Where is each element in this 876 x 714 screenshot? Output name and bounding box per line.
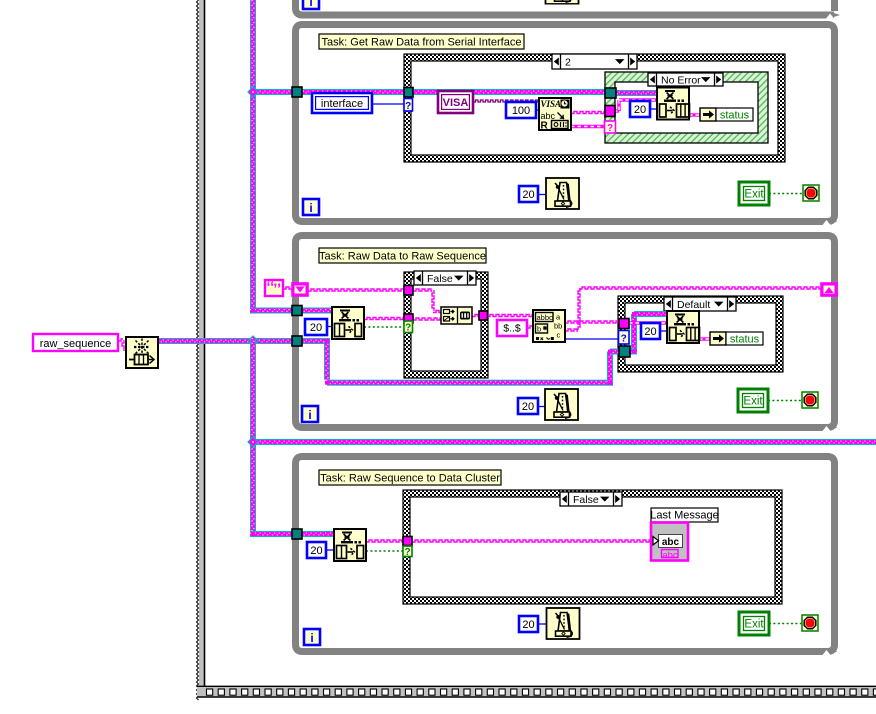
- svg-text:20: 20: [522, 401, 534, 413]
- svg-text:interface: interface: [321, 98, 363, 110]
- wire Exit to loop stop terminal (frame2): [768, 400, 802, 402]
- selector terminal CS4 ?: [403, 546, 412, 558]
- tunnel CS3 left (string): [619, 319, 629, 329]
- wire inside No Error tunnel to enqueue E1: [614, 100, 659, 111]
- svg-text:20: 20: [522, 619, 534, 631]
- indicator status (No Error): [700, 108, 753, 122]
- VISA configure serial port icon: [539, 98, 571, 132]
- while loop frame 1 (Task: Get Raw Data from Serial Interface): [296, 25, 838, 226]
- while loop frame 2 (Task: Raw Data to Raw Sequence): [296, 236, 838, 432]
- wire 20 to wait-ms metronome (frame3): [538, 623, 547, 625]
- tunnel frame3 left (queue): [292, 529, 302, 539]
- queue wire junction at (253,92): [248, 87, 258, 97]
- wire enqueue E3 to status indicator: [699, 337, 710, 340]
- wire queue inside frame2 to dequeue D2: [301, 308, 334, 314]
- enqueue element icon E1: [657, 88, 690, 120]
- match pattern icon: [533, 310, 565, 342]
- svg-text:abc: abc: [662, 550, 678, 561]
- control Exit (frame3): [739, 612, 769, 635]
- dequeue element icon D3: [334, 529, 366, 561]
- case structure CS4 (False) border: [403, 490, 782, 604]
- constant 20 (frame3 wait): [519, 616, 538, 632]
- wire match pattern out a to CS3 tunnel: [565, 321, 619, 323]
- constant VISA: [438, 91, 473, 113]
- wire Exit to loop stop terminal (frame3): [769, 623, 802, 625]
- case structure CS3 selector label: [664, 297, 736, 311]
- selector terminal CS1 ?: [404, 99, 413, 112]
- svg-text:20: 20: [310, 322, 322, 334]
- flat sequence structure left border: [197, 0, 205, 700]
- wire raw_sequence to obtain queue icon: [118, 339, 126, 350]
- wire VISA icon string out to tunnel: [571, 112, 605, 114]
- queue wire junction at (253,442): [248, 437, 258, 447]
- wire dequeue D2 bool out to CS2 ? terminal: [364, 326, 404, 328]
- tunnel frame2 right up-arrow: [821, 283, 837, 296]
- constant 20 (frame2 wait): [518, 398, 538, 414]
- svg-text:20: 20: [644, 326, 656, 338]
- svg-text:b: b: [537, 325, 541, 334]
- tunnel CS1 left (queue): [404, 88, 413, 98]
- label Task: Raw Sequence to Data Cluster: [319, 470, 501, 485]
- svg-text:No Error: No Error: [661, 74, 701, 86]
- svg-text:i: i: [309, 201, 312, 215]
- svg-text:status: status: [720, 110, 750, 122]
- constant raw_sequence: [33, 334, 118, 351]
- case structure CS4 selector label: [560, 492, 622, 506]
- svg-text:abbc: abbc: [537, 313, 554, 322]
- wire queue H2 (obtain queue to frame 2): [158, 338, 300, 344]
- wait ms metronome icon (frame2): [545, 389, 578, 420]
- wire queue frame2 bypass: [301, 338, 620, 386]
- wire CS2 right tunnel to match pattern: [487, 315, 533, 317]
- queue wire corner patches: [251, 309, 636, 537]
- tunnel No Error left (queue): [605, 88, 616, 98]
- label Task: Get Raw Data from Serial Interface: [319, 34, 524, 49]
- constant 20 (No Error enqueue): [630, 101, 650, 117]
- svg-text:i: i: [310, 631, 313, 645]
- wire 100 to VISA configure icon: [536, 109, 539, 111]
- wire enqueue E1 to status indicator: [689, 113, 700, 116]
- tunnel frame1 left (queue): [292, 87, 302, 97]
- iteration terminal i (frame2): [302, 406, 318, 422]
- wire CS2 tunnel2 to convert icon row2: [413, 318, 441, 320]
- case structure No Error selector label: [648, 73, 723, 86]
- svg-text:bb: bb: [554, 322, 562, 331]
- wire queue inside CS3 to enqueue E3: [629, 311, 668, 355]
- svg-text:?: ?: [621, 334, 627, 345]
- wire VISA icon error out to ? terminal: [571, 125, 604, 128]
- constant 20 (frame1 wait): [519, 186, 538, 202]
- svg-text:20: 20: [522, 189, 534, 201]
- tunnel CS3 left (queue): [619, 346, 630, 357]
- wait ms metronome icon (frame3): [547, 608, 580, 639]
- control interface (string): [312, 93, 372, 113]
- svg-text:abc: abc: [662, 537, 680, 548]
- case structure CS3 (Default) border: [618, 296, 783, 372]
- queue wire junction at (253,341): [248, 336, 258, 346]
- svg-text:Last Message: Last Message: [650, 510, 718, 522]
- wire inside CS3 tunnel to enqueue E3: [629, 321, 668, 324]
- case structure No Error (green) border: [605, 72, 768, 143]
- wire inside CS2 riser to convert icon: [413, 289, 441, 313]
- tunnel CS4 left (string): [403, 537, 412, 546]
- wire queue H0 (into frame 1): [250, 89, 415, 95]
- wire queue V2 (x=253, down to frame 3): [250, 338, 256, 534]
- svg-text:c: c: [557, 331, 561, 340]
- svg-text:Task: Raw Sequence to Data Clu: Task: Raw Sequence to Data Cluster: [320, 473, 500, 485]
- wire queue frame3 to dequeue D3: [301, 531, 335, 537]
- wire 20 to enqueue E1: [650, 108, 659, 110]
- svg-text:abc: abc: [541, 111, 556, 121]
- flat sequence structure bottom border (filmstrip): [197, 686, 876, 697]
- svg-text:i: i: [308, 408, 311, 422]
- enqueue element icon E3: [667, 311, 700, 343]
- svg-text:20: 20: [634, 104, 646, 116]
- svg-text:Default: Default: [677, 299, 710, 311]
- wire match pattern out bb riser to top: [565, 287, 821, 331]
- wire interface to CS1 selector terminal: [372, 103, 404, 105]
- iteration terminal i (frame3): [304, 629, 320, 645]
- selector terminal CS2 ?: [404, 321, 413, 334]
- label Task: Raw Data to Raw Sequence: [319, 248, 486, 263]
- svg-text:Exit: Exit: [743, 396, 763, 408]
- wire 20 to wait-ms metronome (frame1): [538, 194, 546, 196]
- case structure CS2 (False) border: [404, 272, 488, 378]
- selector terminal No Error ?: [605, 121, 616, 134]
- svg-text:False: False: [573, 494, 599, 506]
- tunnel frame2 left queue 2: [292, 336, 302, 346]
- svg-text:?: ?: [405, 323, 411, 334]
- svg-text:$..$: $..$: [503, 323, 521, 335]
- while loop frame 3 (Task: Raw Sequence to Data Cluster): [296, 457, 838, 656]
- wire dequeue D3 bool to CS4 ? terminal: [366, 550, 403, 552]
- wire quotes constant to down tunnel: [283, 287, 292, 289]
- string-to-byte-array convert icon: [441, 307, 472, 324]
- svg-text:VISA: VISA: [443, 97, 469, 109]
- control Exit (frame2): [738, 389, 768, 412]
- svg-text:status: status: [730, 334, 760, 346]
- case structure CS1 selector label: [552, 54, 637, 69]
- svg-text:?: ?: [405, 101, 411, 112]
- svg-text:raw_sequence: raw_sequence: [40, 338, 112, 350]
- svg-text:100: 100: [512, 105, 530, 117]
- dequeue element icon D2: [332, 307, 364, 339]
- wire queue inside No Error to enqueue: [614, 90, 659, 96]
- wire dequeue D2 out to CS2 tunnel2: [364, 318, 404, 320]
- svg-text:20: 20: [310, 545, 322, 557]
- obtain queue icon: [126, 337, 158, 368]
- wire down tunnel to CS2 tunnel: [308, 289, 404, 291]
- wire Exit to loop stop terminal (frame1): [769, 193, 803, 195]
- wire dequeue D3 out to CS4 tunnel: [366, 540, 403, 542]
- svg-text:VISA: VISA: [541, 99, 562, 109]
- iteration terminal i (frame1): [303, 199, 319, 215]
- svg-text:?: ?: [404, 547, 410, 558]
- svg-text:Exit: Exit: [744, 619, 764, 631]
- wire 20 to enqueue E3: [660, 330, 668, 332]
- constant 20 (CS3 enqueue): [641, 323, 660, 339]
- indicator status (CS3): [710, 332, 763, 346]
- wire match pattern offset to CS3 ? terminal: [565, 338, 618, 340]
- case structure CS1 (selector 2) border: [404, 54, 785, 162]
- control Exit (frame1): [739, 182, 769, 205]
- wire queue H0b (CS1 tunnel to No Error): [413, 89, 610, 95]
- svg-text:2: 2: [565, 56, 571, 68]
- tunnel No Error left (string): [605, 106, 615, 117]
- selector terminal CS3 ?: [619, 331, 630, 345]
- wire queue H4 (between frames, to right edge): [250, 439, 876, 445]
- wire inside CS4 to Last Message indicator: [412, 540, 651, 542]
- constant empty strings quotes: [265, 280, 283, 296]
- wire $..$ to match pattern: [527, 326, 533, 328]
- wire 20 to dequeue D2: [327, 326, 332, 328]
- tunnel frame2 left down-arrow: [292, 283, 308, 296]
- wire convert icon to CS2 right tunnel: [472, 315, 479, 317]
- loop stop terminal (frame2): [802, 392, 818, 408]
- wire queue H3 (into frame 3): [250, 531, 300, 537]
- loop stop terminal (frame1): [803, 185, 819, 201]
- constant $..$: [497, 320, 527, 336]
- svg-text:R: R: [541, 121, 549, 132]
- tunnel CS2 left (string): [404, 286, 413, 296]
- wire queue V1 (x=253, top to frame2 turn): [250, 0, 256, 314]
- svg-text:False: False: [427, 273, 453, 285]
- svg-text:Exit: Exit: [744, 189, 764, 201]
- while loop frame 0 (partial, top): [296, 0, 841, 19]
- wait ms metronome icon (frame0 partial): [546, 0, 579, 4]
- loop stop terminal (frame3): [802, 615, 818, 631]
- svg-text:i: i: [309, 0, 312, 9]
- tunnel CS2 right (string): [479, 311, 488, 320]
- indicator Last Message (string): [651, 523, 688, 562]
- wire queue H1 (V1 turn into frame 2): [250, 308, 300, 314]
- svg-text:?: ?: [607, 123, 613, 134]
- case structure CS2 selector label: [414, 271, 476, 285]
- tunnel frame2 left queue 1: [292, 306, 302, 316]
- constant 20 (frame2 dequeue): [305, 319, 327, 335]
- label Last Message: [650, 508, 718, 522]
- svg-text:Task: Get Raw Data from Serial: Task: Get Raw Data from Serial Interface: [322, 37, 522, 49]
- wait ms metronome icon (frame1): [546, 178, 579, 209]
- constant 20 (frame3 dequeue): [307, 542, 326, 558]
- wire 20 to wait-ms metronome (frame2): [538, 406, 545, 408]
- wire VISA constant to VISA configure icon: [473, 100, 539, 102]
- iteration terminal i (frame0 partial): [303, 0, 319, 9]
- constant 100: [506, 102, 536, 118]
- tunnel CS2 left 2 (string): [404, 314, 413, 323]
- wire 20 to dequeue D3: [326, 549, 334, 551]
- svg-text:Task: Raw Data to Raw Sequence: Task: Raw Data to Raw Sequence: [319, 251, 486, 263]
